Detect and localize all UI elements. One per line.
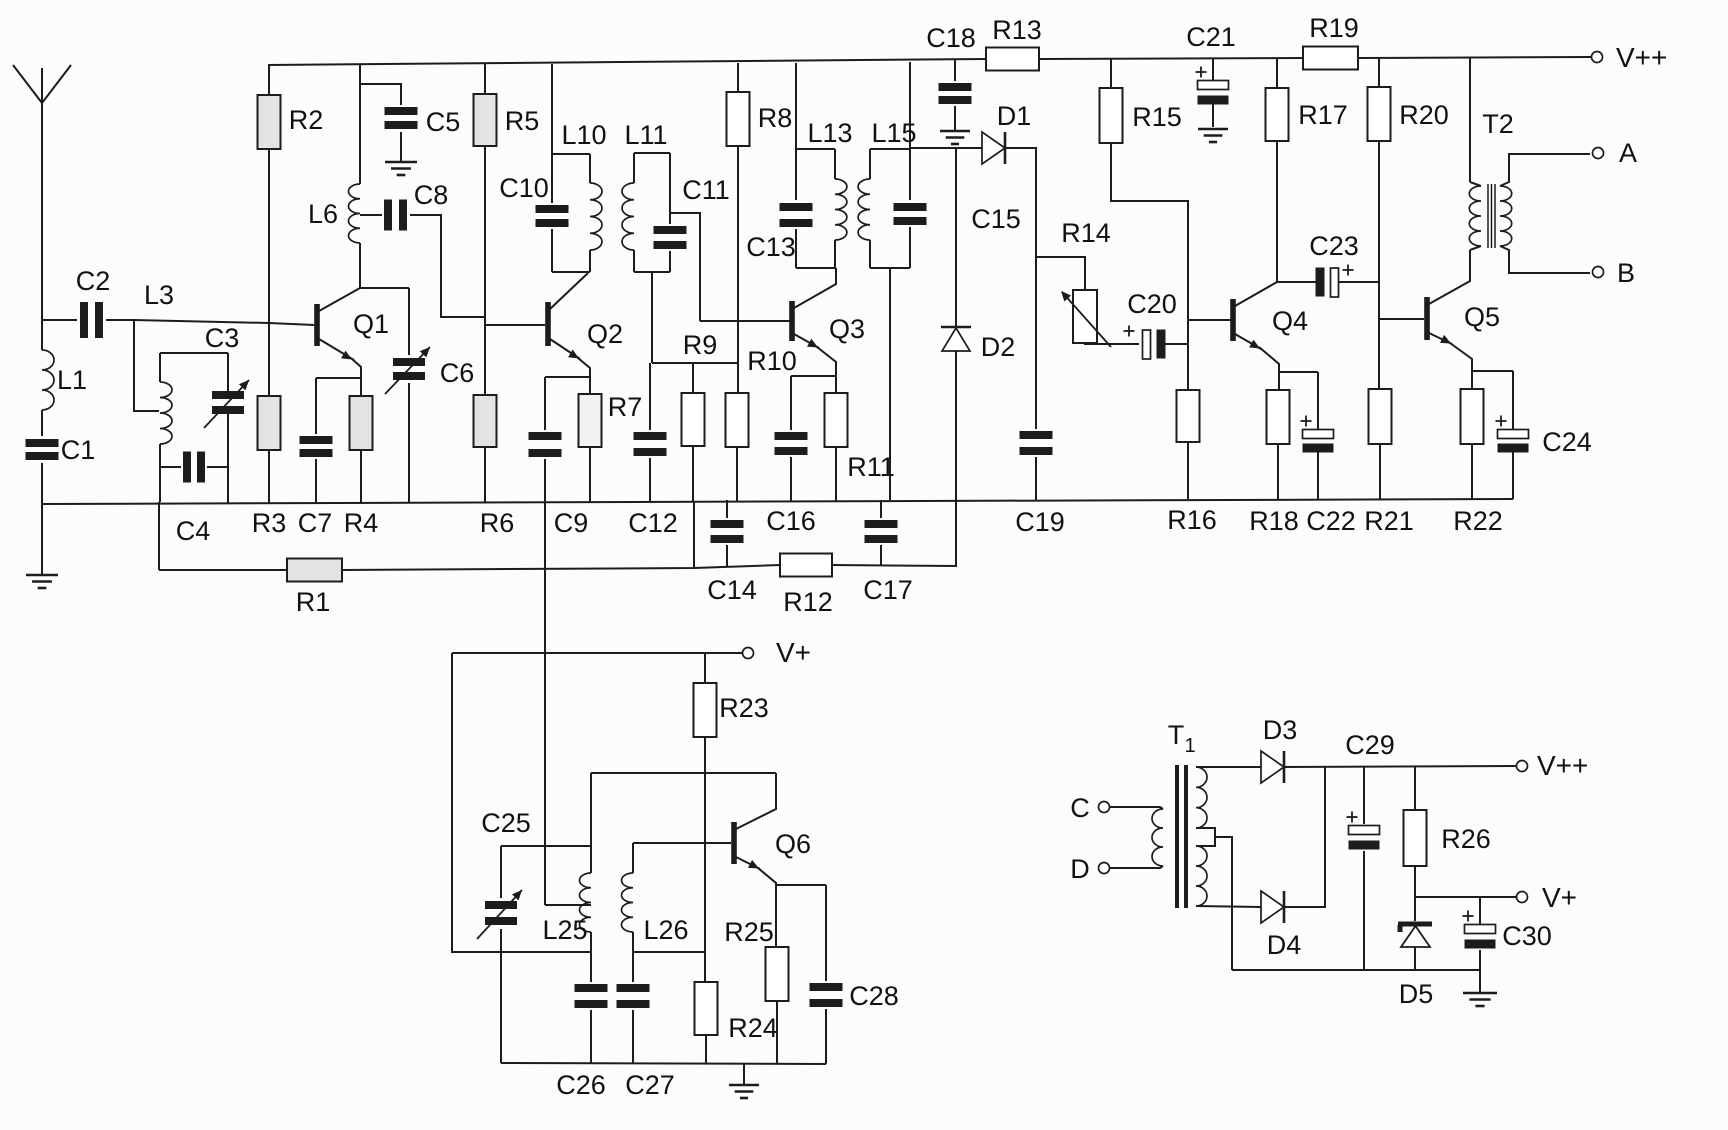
svg-text:T: T xyxy=(1168,720,1185,750)
wire L13 left upper xyxy=(795,149,797,200)
svg-text:L6: L6 xyxy=(308,199,338,229)
svg-text:R1: R1 xyxy=(296,587,331,617)
svg-text:Q2: Q2 xyxy=(587,319,623,349)
svg-text:C21: C21 xyxy=(1186,22,1236,52)
svg-text:C25: C25 xyxy=(481,808,531,838)
capacitor C18 xyxy=(926,23,976,104)
svg-text:R4: R4 xyxy=(344,508,379,538)
ground G4 xyxy=(1198,129,1228,142)
wire C11 to L11 bottom xyxy=(669,251,671,272)
wire L3 to C4 xyxy=(160,466,181,468)
wire Q6 base wire xyxy=(633,842,731,844)
electrolytic capacitor C22 xyxy=(1301,416,1356,537)
label L3 xyxy=(144,280,174,310)
wire C23 left xyxy=(1277,281,1316,283)
svg-text:V++: V++ xyxy=(1537,750,1588,781)
wire R9 stub xyxy=(692,363,694,393)
wire D to T1 xyxy=(1110,866,1163,868)
wire C13 to L13 bottom xyxy=(795,229,797,268)
wire R17 top xyxy=(1276,58,1278,88)
svg-text:L3: L3 xyxy=(144,280,174,310)
wire L6 to Q1 collector xyxy=(360,243,409,288)
wire psu bottom rail xyxy=(1232,969,1480,971)
wire D5 line xyxy=(1414,897,1416,921)
wire L15 right upper xyxy=(909,149,911,200)
wire C9 to L25 tap xyxy=(545,904,591,906)
svg-text:C4: C4 xyxy=(176,516,211,546)
wire R9 to bus xyxy=(692,446,694,501)
wire C18 stem xyxy=(954,60,956,81)
resistor R17 xyxy=(1266,88,1348,141)
resistor R22 xyxy=(1453,389,1503,536)
capacitor C15 xyxy=(894,203,1021,234)
transistor Q6 xyxy=(731,822,811,864)
wire R21 to bus xyxy=(1379,444,1381,500)
wire C30 to rail xyxy=(1479,950,1481,970)
transistor Q3 xyxy=(789,301,865,344)
svg-text:C17: C17 xyxy=(863,575,913,605)
wire L10 left upper xyxy=(551,154,553,203)
wire C25 lower xyxy=(500,929,502,1063)
wire C8 out xyxy=(410,215,485,317)
wire D3 out / V++ rail xyxy=(1284,766,1516,767)
wire R8 to R10 xyxy=(737,146,739,393)
terminal V++ psu xyxy=(1517,750,1589,781)
capacitor C5 xyxy=(385,107,461,137)
wire R11 to bus xyxy=(835,447,837,501)
svg-text:L13: L13 xyxy=(807,118,852,148)
wire C20 out xyxy=(1165,343,1188,345)
wire Q6 collector xyxy=(736,773,776,829)
wire C10 to L10 bottom xyxy=(551,229,553,272)
svg-text:R20: R20 xyxy=(1399,100,1449,130)
transistor Q4 xyxy=(1230,299,1308,341)
capacitor C12 xyxy=(628,432,678,538)
resistor R4 xyxy=(344,396,379,538)
wire Q4 emitter to C22 xyxy=(1279,371,1318,373)
svg-text:C22: C22 xyxy=(1306,506,1356,536)
wire L11 center tap xyxy=(651,272,653,363)
wire C9 long line xyxy=(544,459,546,905)
inductor L6 xyxy=(308,184,360,243)
svg-text:R18: R18 xyxy=(1249,506,1299,536)
wire Q3 emitter xyxy=(794,334,836,393)
ground G1 xyxy=(26,575,58,588)
capacitor C26 xyxy=(556,984,607,1100)
resistor R3 xyxy=(252,396,287,538)
wire R15 jog xyxy=(1111,143,1188,344)
wire R14 tap xyxy=(1036,257,1085,290)
wire osc bottom bus xyxy=(501,1063,826,1064)
wire C11 bypass xyxy=(670,213,700,321)
svg-text:V+: V+ xyxy=(776,637,811,668)
terminal D input xyxy=(1070,854,1109,884)
wire R15 top xyxy=(1110,59,1112,88)
wire R16 to bus xyxy=(1187,442,1189,499)
electrolytic capacitor C21 xyxy=(1186,22,1236,105)
wire L13 feed xyxy=(795,63,797,149)
inductor L1 xyxy=(42,350,87,410)
capacitor C4 xyxy=(176,452,211,547)
transistor Q5 xyxy=(1424,297,1500,340)
wire L15 bottom stub xyxy=(889,268,891,500)
wire R23 to R24 xyxy=(704,737,706,982)
capacitor C10 xyxy=(499,173,568,227)
electrolytic capacitor C30 xyxy=(1463,911,1552,952)
ground G3 xyxy=(940,131,970,144)
capacitor C1 xyxy=(26,435,96,465)
resistor R6 xyxy=(474,395,515,538)
capacitor C7 xyxy=(298,436,333,538)
wire Q4 emitter xyxy=(1235,334,1279,390)
wire Q5 emitter xyxy=(1429,333,1472,389)
diode D4 xyxy=(1261,891,1301,960)
wire Q1 emitter xyxy=(319,339,361,396)
resistor R20 xyxy=(1368,87,1449,141)
svg-text:D1: D1 xyxy=(997,101,1032,131)
svg-text:R5: R5 xyxy=(505,106,540,136)
wire G6 stem xyxy=(1479,970,1481,992)
transistor Q2 xyxy=(545,302,623,349)
wire C22 line xyxy=(1317,372,1319,430)
svg-text:L10: L10 xyxy=(561,120,606,150)
svg-text:1: 1 xyxy=(1184,735,1195,757)
wire R1 right rail xyxy=(342,565,780,570)
resistor R25 xyxy=(724,917,788,1001)
svg-text:C20: C20 xyxy=(1127,289,1177,319)
wire C19 line xyxy=(1035,257,1037,429)
svg-text:C8: C8 xyxy=(414,180,449,210)
wire C17 line xyxy=(880,500,882,518)
wire ant to C2 xyxy=(42,319,77,321)
wire C28 line xyxy=(825,885,827,981)
svg-text:L25: L25 xyxy=(542,915,587,945)
svg-text:R17: R17 xyxy=(1298,100,1348,130)
resistor R7 xyxy=(579,392,643,447)
svg-text:C13: C13 xyxy=(746,232,796,262)
wire C26 to bus xyxy=(590,1010,592,1064)
inductor L26 xyxy=(621,843,688,982)
svg-text:R26: R26 xyxy=(1441,824,1491,854)
diode D1 xyxy=(982,101,1031,164)
wire R9R10 rail xyxy=(652,362,738,364)
inductor L3 xyxy=(160,353,172,502)
wire C15 to L15 bottom xyxy=(909,227,911,268)
terminal A xyxy=(1593,138,1638,168)
svg-text:D2: D2 xyxy=(981,332,1016,362)
wire R3 to bus xyxy=(268,450,270,503)
resistor R8 xyxy=(727,92,793,146)
svg-text:C6: C6 xyxy=(440,358,475,388)
resistor R24 xyxy=(695,982,778,1043)
wire C24 to bus xyxy=(1512,452,1514,499)
wire C14 to rail xyxy=(726,545,728,566)
svg-text:C11: C11 xyxy=(682,175,730,205)
inductor L10 xyxy=(552,120,607,272)
wire R14 to C20 xyxy=(1085,343,1139,344)
svg-text:C16: C16 xyxy=(766,506,816,536)
wire R1 drop xyxy=(158,502,160,570)
wire L1 to C1 xyxy=(41,410,43,436)
wire C22 to bus xyxy=(1317,452,1319,500)
svg-text:C30: C30 xyxy=(1502,921,1552,951)
wire detector rail xyxy=(910,147,982,149)
wire C16 line xyxy=(790,376,792,430)
capacitor C13 xyxy=(746,203,812,262)
wire R7 to bus xyxy=(589,447,591,502)
wire Q6 emitter xyxy=(736,857,776,947)
svg-text:T2: T2 xyxy=(1482,109,1514,139)
svg-text:R13: R13 xyxy=(992,15,1042,45)
svg-text:C12: C12 xyxy=(628,508,678,538)
svg-text:C7: C7 xyxy=(298,508,333,538)
svg-text:C23: C23 xyxy=(1309,231,1359,261)
svg-text:C15: C15 xyxy=(971,204,1021,234)
wire Q5 collector xyxy=(1429,250,1470,304)
wire C6 to bus xyxy=(408,383,410,503)
wire R26 to V+ xyxy=(1414,866,1416,897)
resistor R9 xyxy=(682,330,718,446)
svg-text:C26: C26 xyxy=(556,1070,606,1100)
wire R17 down xyxy=(1276,141,1278,282)
svg-text:C10: C10 xyxy=(499,173,549,203)
wire Q4 collector xyxy=(1235,282,1277,306)
svg-text:R15: R15 xyxy=(1132,102,1182,132)
capacitor C9 xyxy=(529,432,589,538)
resistor R2 xyxy=(258,95,324,149)
ground G5 xyxy=(729,1085,759,1098)
inductor L15 xyxy=(858,118,916,268)
resistor R26 xyxy=(1404,810,1491,866)
svg-text:C1: C1 xyxy=(61,435,96,465)
wire L15 feed xyxy=(909,62,911,149)
svg-text:V++: V++ xyxy=(1616,42,1667,73)
wire C14 line xyxy=(726,500,728,518)
resistor R19 xyxy=(1303,13,1359,70)
terminal V+ psu xyxy=(1517,882,1578,913)
wire R10 to bus xyxy=(736,447,738,501)
wire Q3 collector xyxy=(794,268,836,308)
wire C7 line xyxy=(315,378,317,434)
ground G2 xyxy=(385,162,417,175)
wire C4 to C3 line xyxy=(207,466,228,468)
terminal V+ osc xyxy=(743,637,812,668)
wire C5 branch xyxy=(360,84,401,105)
wire Q4 base wire xyxy=(1188,319,1232,321)
wire C1 to bus xyxy=(41,463,43,504)
capacitor C14 xyxy=(707,520,757,605)
wire T1 sec bottom xyxy=(1196,906,1261,907)
wire C21 to ground xyxy=(1212,104,1214,127)
wire R5 to R6 xyxy=(484,146,486,395)
wire R22 to bus xyxy=(1471,444,1473,500)
svg-text:D5: D5 xyxy=(1399,979,1434,1009)
wire R4 to bus xyxy=(360,450,362,503)
wire D2 line xyxy=(955,148,957,327)
resistor R12 xyxy=(780,554,833,618)
svg-text:D4: D4 xyxy=(1267,930,1302,960)
wire R8 top xyxy=(737,63,739,92)
svg-text:R24: R24 xyxy=(728,1013,778,1043)
wire V+ rail xyxy=(452,652,742,654)
wire top bus left xyxy=(268,59,986,65)
svg-text:R16: R16 xyxy=(1167,505,1217,535)
wire C16 to bus xyxy=(790,457,792,501)
wire C3 line xyxy=(227,353,229,391)
wire Q2 base xyxy=(485,324,545,326)
svg-text:L26: L26 xyxy=(643,915,688,945)
wire C2 to Q1 base xyxy=(106,320,314,325)
wire T1 sec top xyxy=(1196,766,1261,768)
wire R20 to R21 xyxy=(1378,141,1380,389)
svg-text:R25: R25 xyxy=(724,917,774,947)
zener diode D2 xyxy=(941,327,1015,362)
wire C25 upper xyxy=(500,846,502,898)
svg-text:C28: C28 xyxy=(849,981,899,1011)
wire C9 line xyxy=(544,377,546,430)
svg-text:R12: R12 xyxy=(783,587,833,617)
electrolytic capacitor C24 xyxy=(1496,416,1592,458)
wire node to L3 tap xyxy=(134,320,159,411)
wire C28 to bus xyxy=(825,1009,827,1064)
wire Q2 emitter to C9 xyxy=(545,376,590,378)
wire Q3 emitter to C16 xyxy=(791,375,836,377)
transformer T1 xyxy=(1152,720,1215,908)
capacitor C17 xyxy=(863,520,913,605)
svg-text:D3: D3 xyxy=(1263,715,1298,745)
svg-text:R23: R23 xyxy=(719,693,769,723)
svg-text:D: D xyxy=(1070,854,1090,884)
wire C29 line xyxy=(1363,766,1365,824)
terminal C input xyxy=(1070,793,1109,823)
resistor R10 xyxy=(726,346,797,447)
wire C12 to bus xyxy=(649,458,651,502)
wire C27 to bus xyxy=(632,1010,634,1064)
wire C12 line xyxy=(649,363,651,430)
wire L26 to R24 line xyxy=(633,951,705,953)
svg-text:L1: L1 xyxy=(57,365,87,395)
variable resistor R14 xyxy=(1061,218,1111,347)
svg-text:R19: R19 xyxy=(1309,13,1359,43)
resistor R18 xyxy=(1249,390,1299,536)
wire C18 to ground xyxy=(954,106,956,130)
svg-text:Q3: Q3 xyxy=(829,314,865,344)
resistor R13 xyxy=(986,15,1042,71)
wire L6 tap to C8 xyxy=(360,214,382,216)
wire antenna lead xyxy=(41,103,43,350)
wire R23 top xyxy=(704,653,706,683)
svg-text:Q1: Q1 xyxy=(353,309,389,339)
wire C to T1 xyxy=(1110,807,1163,809)
variable capacitor C25 xyxy=(477,808,531,939)
svg-text:Q4: Q4 xyxy=(1272,306,1308,336)
electrolytic capacitor C23 xyxy=(1309,231,1359,297)
wire R5 top xyxy=(484,64,486,94)
wire D2 to bus xyxy=(955,351,957,501)
capacitor C19 xyxy=(1015,431,1065,537)
wire R1 left xyxy=(159,569,287,571)
svg-text:C: C xyxy=(1070,793,1090,823)
resistor R23 xyxy=(694,683,769,737)
variable capacitor C3 xyxy=(204,323,249,428)
wire C6 line xyxy=(408,288,410,355)
svg-text:Q6: Q6 xyxy=(775,829,811,859)
svg-text:R9: R9 xyxy=(683,330,718,360)
wire R2 to R3 xyxy=(268,149,270,396)
resistor R1 xyxy=(287,559,342,618)
resistor R21 xyxy=(1364,389,1414,536)
wire C3 to bus xyxy=(227,414,229,503)
wire D5 to rail xyxy=(1414,947,1416,970)
svg-text:C9: C9 xyxy=(554,508,589,538)
wire bus to ground xyxy=(41,504,43,574)
wire R18 to bus xyxy=(1277,444,1279,500)
variable capacitor C6 xyxy=(385,347,474,394)
inductor L13 xyxy=(796,118,853,268)
wire R20 top xyxy=(1378,58,1380,87)
resistor R11 xyxy=(825,393,895,482)
svg-text:C5: C5 xyxy=(426,107,461,137)
terminal B xyxy=(1593,258,1636,288)
terminal V++ main xyxy=(1592,42,1668,73)
capacitor C2 xyxy=(76,266,111,338)
antenna xyxy=(13,65,71,103)
wire R9 below bus xyxy=(693,501,695,569)
wire L6 line top xyxy=(359,64,361,184)
wire bottom bus xyxy=(42,499,1513,504)
wire Q2 collector xyxy=(550,273,588,309)
zener diode D5 xyxy=(1398,924,1433,1009)
svg-text:R10: R10 xyxy=(747,346,797,376)
svg-text:L15: L15 xyxy=(871,118,916,148)
svg-text:C14: C14 xyxy=(707,575,757,605)
wire osc left side xyxy=(452,653,591,952)
svg-text:R8: R8 xyxy=(758,103,793,133)
wire R6 to bus xyxy=(484,447,486,502)
wire R26 top xyxy=(1414,766,1416,810)
capacitor C11 xyxy=(654,175,730,249)
svg-text:A: A xyxy=(1619,138,1637,168)
wire L10 feed xyxy=(551,64,553,154)
electrolytic capacitor C20 xyxy=(1124,289,1177,359)
svg-text:R7: R7 xyxy=(608,392,643,422)
resistor R15 xyxy=(1100,88,1182,143)
wire R16 top xyxy=(1187,344,1189,390)
wire D1 out xyxy=(1005,148,1036,257)
svg-text:R3: R3 xyxy=(252,508,287,538)
wire T1 tap xyxy=(1215,837,1232,970)
wire G5 stem xyxy=(743,1064,745,1084)
wire C17 to rail xyxy=(880,545,882,565)
svg-text:C2: C2 xyxy=(76,266,111,296)
resistor R16 xyxy=(1167,390,1217,535)
wire C24 line xyxy=(1512,371,1514,430)
wire R25 to bus xyxy=(776,1001,778,1064)
electrolytic capacitor C29 xyxy=(1345,730,1395,850)
wire Q2 emitter xyxy=(550,339,590,394)
svg-text:R14: R14 xyxy=(1061,218,1111,248)
wire Q6 emitter to C28 xyxy=(776,884,826,886)
capacitor C27 xyxy=(617,984,675,1100)
resistor R5 xyxy=(474,94,540,146)
transformer T2 xyxy=(1469,58,1590,273)
capacitor C28 xyxy=(810,981,899,1011)
wire R12 right rail xyxy=(832,500,956,566)
wire R2 line xyxy=(268,65,270,95)
inductor L25 xyxy=(542,773,591,982)
wire C21 stem xyxy=(1212,59,1214,80)
inductor L11 xyxy=(622,120,670,272)
